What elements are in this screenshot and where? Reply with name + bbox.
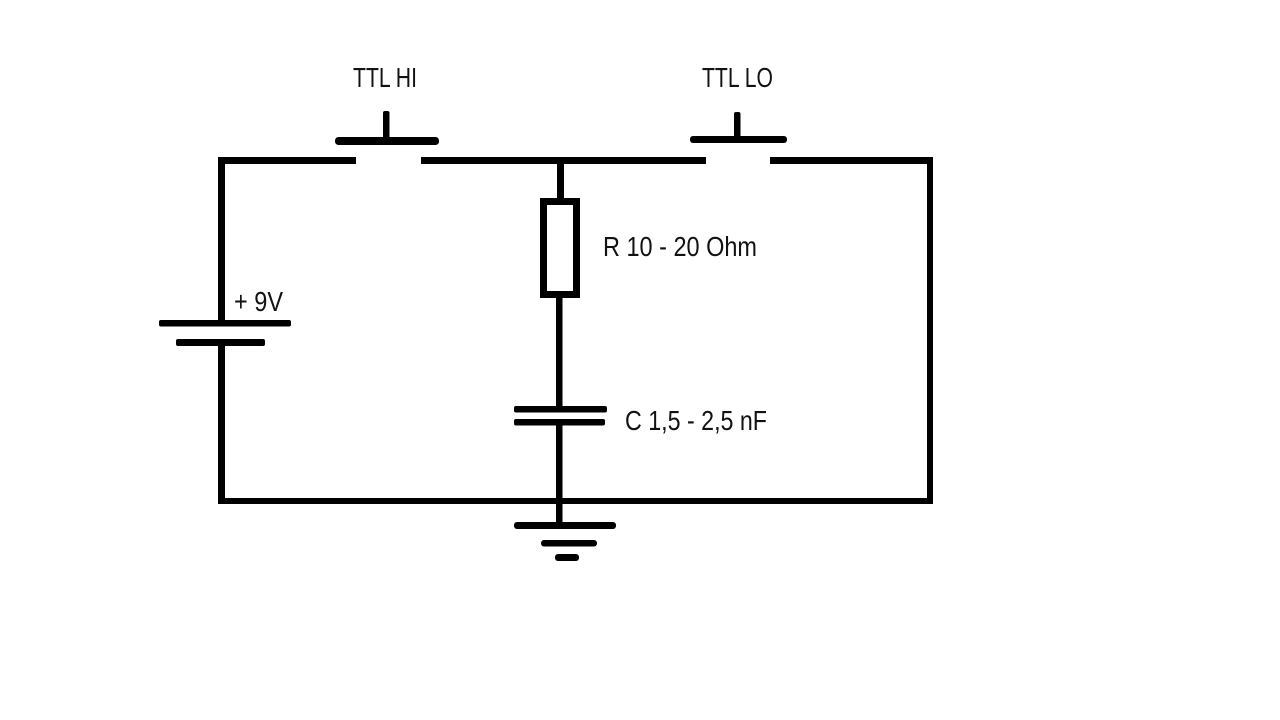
wire bottom: [218, 498, 933, 504]
wire node to resistor: [557, 164, 564, 199]
svg-text:TTL HI: TTL HI: [353, 62, 417, 93]
capacitor C bottom plate: [514, 419, 605, 426]
resistor R body: [544, 202, 577, 295]
ground bar 3: [555, 554, 579, 561]
switch S1 actuator stub: [383, 111, 390, 141]
wire capacitor to ground: [556, 425, 563, 524]
svg-text:+ 9V: + 9V: [234, 286, 284, 317]
wire resistor to capacitor: [556, 297, 563, 407]
ground bar 2: [541, 540, 597, 547]
battery long plate: [159, 320, 291, 327]
switch S2 actuator stub: [734, 112, 741, 140]
capacitor C top plate: [514, 406, 607, 413]
wire left lower (from battery to bottom): [218, 340, 225, 504]
svg-text:C 1,5 - 2,5 nF: C 1,5 - 2,5 nF: [625, 405, 767, 436]
wire right side: [927, 157, 933, 504]
battery short plate: [176, 339, 265, 346]
svg-text:TTL LO: TTL LO: [702, 62, 773, 93]
wire top right segment: [770, 157, 933, 164]
switch S1 contact bar: [335, 137, 439, 145]
ground bar 1: [514, 522, 616, 529]
wire left upper (to battery): [218, 157, 225, 324]
wire top left segment: [218, 157, 356, 164]
wire top middle segment: [421, 157, 706, 164]
svg-text:R 10 - 20 Ohm: R 10 - 20 Ohm: [603, 231, 757, 262]
switch S2 contact bar: [690, 136, 787, 143]
